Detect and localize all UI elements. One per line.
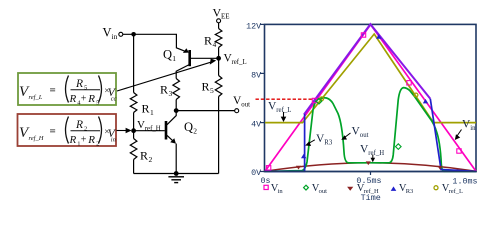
ground xyxy=(168,177,184,183)
marker Vref_L circles (olive) xyxy=(320,93,418,101)
legend marker Vref_L xyxy=(434,186,438,190)
annotation V_refL with arrow xyxy=(268,101,291,123)
wire Q1 collector down to R3 xyxy=(176,64,190,78)
node Vin terminal xyxy=(103,26,123,42)
svg-text:12V: 12V xyxy=(246,21,261,31)
svg-text:R: R xyxy=(75,119,83,131)
svg-text:ref_L: ref_L xyxy=(449,188,463,195)
svg-text:4V: 4V xyxy=(251,119,261,129)
node VEE supply terminal xyxy=(213,6,230,23)
x-axis ticks and labels xyxy=(261,172,478,204)
transistor Q2 (NPN) emitter wire with arrow xyxy=(167,135,174,141)
svg-text:R: R xyxy=(204,34,212,48)
svg-text:ref_H: ref_H xyxy=(364,188,379,195)
svg-text:ref_L: ref_L xyxy=(29,94,43,101)
svg-text:R: R xyxy=(140,149,148,163)
trace VR3 overlap on Vin (violet) xyxy=(304,24,430,114)
svg-text:4: 4 xyxy=(213,40,217,49)
wire R4 to node Vref_L xyxy=(218,48,220,59)
wire arrow from Vref_H formula to node Vref_H xyxy=(117,128,132,134)
transistor Q1 (PNP) emitter arrow xyxy=(183,48,189,53)
resistor R3 xyxy=(160,79,180,100)
trace Vref_L (olive) xyxy=(265,34,476,123)
svg-text:2: 2 xyxy=(84,126,87,133)
legend marker Vref_H xyxy=(347,187,353,191)
svg-text:=: = xyxy=(50,85,56,97)
wire Vout line xyxy=(176,110,235,112)
svg-text:in: in xyxy=(111,137,116,144)
svg-text:V: V xyxy=(103,26,112,40)
resistor R4 xyxy=(204,29,222,50)
transistor Q2 label xyxy=(184,120,197,136)
svg-text:R3: R3 xyxy=(324,139,333,146)
svg-text:2: 2 xyxy=(149,155,153,164)
svg-text:5: 5 xyxy=(84,85,87,92)
svg-text:5: 5 xyxy=(210,86,214,95)
svg-text:in: in xyxy=(112,32,118,41)
junction Vin/R1 xyxy=(131,32,136,37)
svg-text:out: out xyxy=(319,188,328,195)
svg-text:2: 2 xyxy=(193,127,197,136)
wire Vref_L node to R5 xyxy=(218,58,220,75)
wire ground rail xyxy=(134,173,219,175)
svg-text:+: + xyxy=(81,135,87,146)
resistor R5 xyxy=(202,76,222,97)
transistor Q1 base bar xyxy=(188,50,191,66)
svg-text:R: R xyxy=(87,93,95,105)
node Vout terminal xyxy=(233,95,250,113)
svg-text:0s: 0s xyxy=(261,176,271,186)
svg-text:ref_L: ref_L xyxy=(232,59,247,66)
svg-text:Q: Q xyxy=(163,48,172,62)
svg-text:R: R xyxy=(69,93,77,105)
node Vref_H junction xyxy=(131,119,161,133)
legend marker Vout xyxy=(304,185,309,190)
wire arrow from Vref_L formula to node Vref_L xyxy=(117,59,216,92)
wire R5 down to ground rail (crosses Vout line) xyxy=(218,97,220,174)
svg-text:EE: EE xyxy=(221,13,230,21)
svg-text:R: R xyxy=(160,83,168,97)
value label box Vref_L formula xyxy=(18,73,117,107)
wire Q2 emitter down to ground xyxy=(175,144,177,174)
wire Vin junction down to R1 xyxy=(133,34,135,92)
svg-text:out: out xyxy=(241,101,250,108)
annotation V_in with arrow xyxy=(455,119,476,141)
resistor R2 xyxy=(130,139,152,165)
svg-text:R: R xyxy=(69,134,77,146)
svg-text:V: V xyxy=(137,119,145,131)
x-axis baseline overlay xyxy=(264,171,477,173)
marker Vref_H triangles (dark red) xyxy=(296,161,443,169)
legend marker VR3 xyxy=(391,186,397,191)
annotation V_out with arrow xyxy=(341,126,368,140)
wire R1 to node Vref_H xyxy=(133,113,135,131)
svg-text:1: 1 xyxy=(150,108,154,117)
marker VR3 triangles (blue) xyxy=(301,34,428,158)
chart frame xyxy=(265,24,477,171)
svg-text:8V: 8V xyxy=(251,70,261,80)
svg-text:ref_H: ref_H xyxy=(29,135,44,142)
svg-text:1.0ms: 1.0ms xyxy=(452,177,477,187)
annotation V_ref_H with arrow xyxy=(360,144,384,163)
svg-text:cc: cc xyxy=(111,96,117,103)
wire Q1 base to node Vref_L xyxy=(191,57,219,59)
svg-text:3: 3 xyxy=(169,89,173,98)
legend marker Vin xyxy=(264,185,268,189)
wire R2 to ground rail xyxy=(133,160,135,174)
trace Vref_L dashed threshold line xyxy=(256,98,322,100)
svg-text:in: in xyxy=(470,125,476,132)
y-axis ticks and labels xyxy=(246,21,264,178)
svg-text:R: R xyxy=(75,78,83,90)
svg-text:=: = xyxy=(50,126,56,138)
svg-text:R: R xyxy=(202,80,210,94)
resistor R1 xyxy=(130,93,154,118)
svg-text:out: out xyxy=(360,132,369,139)
svg-text:+: + xyxy=(81,94,87,105)
wire R3 to Vout junction xyxy=(175,100,177,111)
marker Vout diamonds (green) xyxy=(316,98,401,149)
svg-text:in: in xyxy=(278,188,284,195)
wire Vin rail to Q1 emitter xyxy=(123,34,186,51)
svg-text:ref_H: ref_H xyxy=(368,150,384,157)
legend xyxy=(264,183,463,195)
wire Vref_H node to Q2 base xyxy=(134,130,165,132)
marker Vin squares (magenta) xyxy=(266,33,461,170)
value label box Vref_H formula xyxy=(18,114,117,148)
transistor Q1 label xyxy=(163,48,176,64)
svg-text:R: R xyxy=(87,134,95,146)
wire VEE to R4 xyxy=(218,23,220,29)
trace Vref_H (dark red) xyxy=(265,163,476,172)
svg-text:1: 1 xyxy=(172,54,176,63)
svg-text:Q: Q xyxy=(184,120,193,134)
svg-text:R: R xyxy=(142,102,150,116)
trace Vin (magenta triangle) xyxy=(265,25,476,172)
junction R3/Q2 collector/Vout xyxy=(174,108,179,113)
trace Vout (green) xyxy=(265,88,476,172)
wire Vref_H node to R2 xyxy=(133,131,135,139)
svg-text:R3: R3 xyxy=(406,188,414,195)
junction ground rail xyxy=(174,171,179,176)
annotation V_R3 with arrow xyxy=(305,133,333,146)
trace VR3 (blue) xyxy=(265,99,476,172)
wire Q2 collector to Vout junction xyxy=(167,111,176,125)
transistor Q2 base bar xyxy=(165,121,168,140)
node Vref_L junction xyxy=(216,53,246,67)
